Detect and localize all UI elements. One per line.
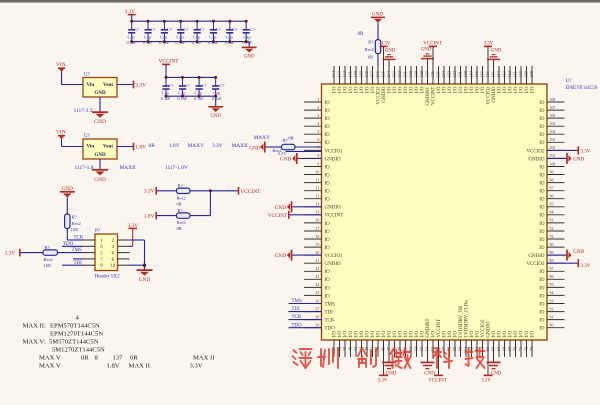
U3 pin 88 (right) wire [547, 262, 565, 264]
junction node cap C12 [214, 76, 217, 79]
svg-text:C?: C? [168, 83, 173, 88]
U3 pin 48 (bottom) wire [394, 340, 396, 357]
ground (bottom cluster1) [382, 361, 396, 363]
svg-text:I/O: I/O [503, 331, 508, 338]
svg-text:GNDIO: GNDIO [325, 262, 341, 267]
U3 pin 137 (top) wire [372, 66, 374, 84]
U3 pin 71 (bottom) wire [520, 340, 522, 357]
svg-text:I/O: I/O [360, 331, 365, 338]
U3 pin 51 (bottom) wire [410, 340, 412, 357]
U3 pin 29 (left) wire [304, 327, 322, 329]
U3 pin 104 (right) wire [547, 133, 565, 135]
svg-text:GNDIO: GNDIO [528, 254, 544, 259]
svg-text:I/O: I/O [470, 86, 475, 93]
U3 pin 136 (top) wire [377, 66, 379, 84]
svg-text:LVDSDRV_CLRn: LVDSDRV_CLRn [465, 300, 470, 338]
U3 pin 90 (right) wire [547, 246, 565, 248]
svg-text:IO: IO [325, 133, 331, 138]
wire VCCIO2 to 3.3V (right lower) [547, 262, 578, 264]
U3 pin 97 (right) wire [547, 190, 565, 192]
wire GND to R7 [377, 23, 379, 40]
svg-text:IO: IO [539, 278, 545, 283]
svg-text:I/O: I/O [366, 331, 371, 338]
U3 pin 26 (left) wire [304, 303, 322, 305]
U3 pin 21 (left) wire [304, 262, 322, 264]
U3 pin 131 (top) wire [405, 66, 407, 84]
U3 pin 101 (right) wire [547, 157, 565, 159]
svg-text:IO: IO [539, 222, 545, 227]
svg-text:I/O: I/O [481, 86, 486, 93]
U3 pin 87 (right) wire [547, 270, 565, 272]
wire GND rail vertical [144, 240, 146, 265]
svg-text:27: 27 [315, 307, 319, 311]
U3 pin 53 (bottom) wire [421, 340, 423, 357]
svg-text:IO: IO [539, 294, 545, 299]
svg-text:IO: IO [325, 278, 331, 283]
svg-text:130: 130 [408, 70, 413, 78]
cap bank2 bottom rail [166, 95, 216, 97]
svg-text:3.3V: 3.3V [144, 189, 155, 195]
svg-text:R?: R? [72, 215, 77, 220]
svg-text:108: 108 [529, 70, 534, 78]
U3 pin 73 (bottom) wire [531, 340, 533, 357]
svg-text:IO: IO [539, 101, 545, 106]
svg-text:TDI: TDI [325, 311, 334, 316]
ground (U1) [92, 111, 108, 113]
header pin 1 stub [83, 239, 95, 241]
svg-text:I/O: I/O [421, 331, 426, 338]
svg-text:I/O: I/O [437, 86, 442, 93]
U3 pin 68 (bottom) wire [504, 340, 506, 357]
capacitor C1 0.1uF [131, 21, 133, 29]
svg-text:84: 84 [550, 291, 554, 295]
svg-text:C?: C? [216, 27, 221, 32]
svg-text:GND: GND [275, 205, 286, 211]
svg-text:62: 62 [469, 347, 474, 352]
wire GND to chip row14 [292, 206, 321, 208]
U3 pin 115 (top) wire [493, 66, 495, 84]
wire bottom pin 47 to GND [388, 340, 390, 362]
power port 3.3V (right) [577, 146, 579, 154]
wire R3 to VCCINT port [190, 190, 238, 192]
U3 pin 47 (bottom) wire [388, 340, 390, 357]
U3 pin 95 (right) wire [547, 206, 565, 208]
svg-text:I/O: I/O [470, 331, 475, 338]
svg-text:VCCIO1: VCCIO1 [325, 149, 344, 154]
svg-text:I/O: I/O [503, 86, 508, 93]
svg-text:I/O: I/O [410, 331, 415, 338]
svg-text:MAX V: MAX V [39, 363, 61, 370]
U3 pin 45 (bottom) wire [377, 340, 379, 357]
U3 pin 72 (bottom) wire [526, 340, 528, 357]
U3 pin 127 (top) wire [427, 66, 429, 84]
U3 pin 13 (left) wire [304, 198, 322, 200]
svg-text:I/O: I/O [514, 86, 519, 93]
wire 3.3V row [286, 150, 322, 152]
svg-text:14: 14 [315, 203, 319, 207]
wire GNDIO to GND (right) [547, 157, 567, 159]
junction node cap C8 [245, 20, 248, 23]
svg-text:IO: IO [539, 182, 545, 187]
U3 pin 66 (bottom) wire [493, 340, 495, 357]
svg-text:2: 2 [317, 106, 319, 110]
svg-text:I/O: I/O [338, 86, 343, 93]
U3 pin 139 (top) wire [361, 66, 363, 84]
U3 pin 80 (right) wire [547, 327, 565, 329]
svg-text:IO: IO [325, 117, 331, 122]
wire VIN to U2 [61, 139, 63, 146]
svg-text:IO: IO [325, 238, 331, 243]
svg-text:85: 85 [550, 283, 554, 287]
svg-text:GNDIO: GNDIO [325, 206, 341, 211]
svg-text:I/O: I/O [371, 331, 376, 338]
svg-text:IO: IO [539, 214, 545, 219]
svg-text:I/O: I/O [333, 86, 338, 93]
sheet top border [0, 0, 600, 3]
power port 3.3V (bottom) [379, 374, 388, 376]
wire bottom pin 46 to 3.3V [383, 340, 385, 375]
svg-text:R?: R? [45, 245, 50, 250]
svg-text:I/O: I/O [355, 86, 360, 93]
wire header pin7 [73, 258, 83, 260]
U3 pin 85 (right) wire [547, 286, 565, 288]
U3 pin 18 (left) wire [304, 238, 322, 240]
svg-text:VCCIO2: VCCIO2 [377, 86, 382, 105]
svg-text:IO: IO [325, 101, 331, 106]
svg-text:IO: IO [325, 182, 331, 187]
junction node cap C4 [179, 20, 182, 23]
svg-text:IO: IO [325, 173, 331, 178]
U3 pin 38 (bottom) wire [339, 340, 341, 357]
svg-text:5: 5 [317, 130, 319, 134]
watermark char 3 (chuang) [358, 348, 376, 367]
svg-text:C?: C? [202, 83, 207, 88]
svg-text:I/O: I/O [377, 331, 382, 338]
U3 pin 84 (right) wire [547, 294, 565, 296]
svg-text:VCCIO2: VCCIO2 [526, 262, 545, 267]
U3 pin 142 (top) wire [344, 66, 346, 84]
U3 pin 42 (bottom) wire [361, 340, 363, 357]
U3 pin 93 (right) wire [547, 222, 565, 224]
U3 pin 55 (bottom) wire [432, 340, 434, 357]
svg-text:U?: U? [84, 73, 91, 78]
watermark char 5 (ke) [433, 348, 452, 368]
svg-text:69: 69 [507, 346, 512, 351]
svg-text:MAXV: MAXV [188, 143, 205, 149]
U3 pin 2 (left) wire [304, 109, 322, 111]
capacitor C7 0.1uF [229, 21, 231, 29]
svg-text:72: 72 [524, 347, 529, 352]
svg-text:I/O: I/O [531, 86, 536, 93]
U3 pin 141 (top) wire [350, 66, 352, 84]
U3 pin 19 (left) wire [304, 246, 322, 248]
svg-text:I/O: I/O [459, 86, 464, 93]
svg-text:Vout: Vout [103, 83, 113, 88]
wire TDI (chip left) [289, 311, 322, 313]
svg-text:IO: IO [539, 206, 545, 211]
svg-text:Cap: Cap [177, 34, 185, 39]
U3 pin 83 (right) wire [547, 303, 565, 305]
svg-text:Vin: Vin [87, 145, 95, 150]
U3 pin 4 (left) wire [304, 125, 322, 127]
U3 pin 54 (bottom) wire [427, 340, 429, 357]
svg-text:43: 43 [364, 346, 369, 351]
svg-text:Vin: Vin [87, 83, 95, 88]
svg-text:I/O: I/O [454, 86, 459, 93]
wire to GND (cap bank2) [215, 96, 217, 106]
U3 pin 106 (right) wire [547, 117, 565, 119]
wire TDO [62, 245, 83, 247]
power port 3.3V (U1 out) [133, 81, 135, 89]
svg-text:TCK: TCK [74, 236, 84, 241]
U3 pin 114 (top) wire [498, 66, 500, 84]
svg-text:MAXII: MAXII [232, 143, 248, 149]
U3 pin 108 (right) wire [547, 101, 565, 103]
U3 pin 11 (left) wire [304, 182, 322, 184]
U3 pin 126 (top) wire [432, 66, 434, 84]
svg-text:Cap: Cap [213, 91, 221, 96]
capacitor C2 0.1uF [147, 21, 149, 29]
svg-text:3.3V: 3.3V [580, 263, 590, 269]
svg-text:I/O: I/O [421, 86, 426, 93]
svg-text:88: 88 [550, 259, 554, 263]
svg-text:TDO: TDO [63, 242, 74, 247]
svg-text:0R: 0R [288, 135, 294, 140]
U3 pin 50 (bottom) wire [405, 340, 407, 357]
header pin 6 stub [118, 252, 130, 254]
svg-text:8: 8 [317, 154, 319, 158]
svg-text:99: 99 [550, 170, 554, 174]
U3 pin 43 (bottom) wire [366, 340, 368, 357]
U3 pin 105 (right) wire [547, 125, 565, 127]
svg-text:I/O: I/O [448, 86, 453, 93]
svg-text:132: 132 [397, 71, 402, 78]
wire TDO (chip left) [289, 327, 322, 329]
svg-text:53: 53 [419, 346, 424, 351]
svg-text:I/O: I/O [465, 86, 470, 93]
resistor R8 0R [282, 144, 296, 149]
svg-text:117: 117 [480, 70, 485, 77]
svg-text:GND: GND [386, 371, 397, 376]
U3 pin 70 (bottom) wire [515, 340, 517, 357]
power port VCCINT (bottom) [434, 374, 443, 376]
svg-text:Res2: Res2 [44, 257, 54, 262]
watermark char 4 (wei) [391, 348, 411, 368]
header pin 8 stub [118, 258, 130, 260]
wire bottom pin 66 to GND [493, 340, 495, 362]
svg-text:109: 109 [524, 70, 529, 78]
svg-text:GNDIO: GNDIO [492, 86, 497, 102]
svg-text:0R: 0R [368, 54, 373, 59]
cap bank2 top rail [166, 76, 216, 78]
svg-text:IO: IO [539, 270, 545, 275]
svg-text:106: 106 [550, 114, 556, 118]
svg-text:16: 16 [315, 219, 319, 223]
wire GND to R5 [66, 198, 68, 214]
U3 pin 39 (bottom) wire [344, 340, 346, 357]
svg-text:IO: IO [325, 246, 331, 251]
resistor R6 10K [43, 250, 58, 255]
U3 pin 121 (top) wire [460, 66, 462, 84]
svg-text:11: 11 [316, 178, 320, 182]
svg-text:1: 1 [317, 98, 319, 102]
svg-text:C?: C? [134, 27, 139, 32]
junction node cap C2 [147, 20, 150, 23]
svg-text:IO: IO [539, 165, 545, 170]
header pin 5 stub [83, 252, 95, 254]
svg-text:25: 25 [315, 291, 319, 295]
wire GND to chip row20 [292, 254, 321, 256]
svg-text:Cap: Cap [209, 34, 217, 39]
resistor R4 0R [177, 213, 191, 218]
svg-text:0.1uF: 0.1uF [242, 40, 252, 45]
svg-text:0R: 0R [177, 226, 183, 231]
svg-text:121: 121 [458, 71, 463, 78]
U3 pin 41 (bottom) wire [355, 340, 357, 357]
svg-text:I/O: I/O [371, 86, 376, 93]
wire to header GND [144, 265, 146, 270]
ground (bottom cluster3) [487, 361, 501, 363]
U3 pin 143 (top) wire [339, 66, 341, 84]
U3 pin 59 (bottom) wire [454, 340, 456, 357]
ground (left row 20) [291, 250, 293, 261]
svg-text:IO: IO [325, 230, 331, 235]
svg-text:95: 95 [550, 203, 554, 207]
svg-text:12: 12 [315, 187, 319, 191]
junction node cap C3 [163, 20, 166, 23]
svg-text:4: 4 [317, 122, 319, 126]
wire R5 to TCK row [66, 229, 68, 241]
svg-text:IO: IO [325, 294, 331, 299]
svg-text:105: 105 [550, 122, 556, 126]
svg-text:IO: IO [325, 109, 331, 114]
U3 pin 62 (bottom) wire [471, 340, 473, 357]
svg-text:115: 115 [491, 70, 496, 77]
U3 pin 99 (right) wire [547, 174, 565, 176]
wire TCK (chip left) [289, 319, 322, 321]
wire header pin2 to GND rail [130, 239, 145, 241]
svg-text:IO: IO [539, 125, 545, 130]
svg-text:EPM570T144C5N: EPM570T144C5N [566, 86, 598, 91]
svg-text:GND: GND [573, 249, 584, 255]
svg-text:10: 10 [315, 170, 319, 174]
svg-text:C?: C? [200, 27, 205, 32]
svg-text:GND: GND [280, 157, 291, 163]
wire GND row7 to chip [298, 158, 322, 160]
svg-text:136: 136 [375, 70, 380, 78]
junction node cap C5 [196, 20, 199, 23]
svg-text:22: 22 [315, 267, 319, 271]
U3 pin 110 (top) wire [520, 66, 522, 84]
ground (bottom cluster2) [421, 361, 435, 363]
power port 3.3V (right lower) [577, 259, 579, 267]
svg-text:MAX V:: MAX V: [23, 339, 46, 346]
U3 pin 98 (right) wire [547, 182, 565, 184]
svg-text:100: 100 [550, 162, 556, 166]
svg-text:IO: IO [539, 238, 545, 243]
svg-text:MAX II:: MAX II: [23, 323, 46, 330]
svg-text:60: 60 [458, 346, 463, 351]
U3 pin 82 (right) wire [547, 311, 565, 313]
svg-text:GND: GND [385, 48, 396, 53]
U3 pin 44 (bottom) wire [372, 340, 374, 357]
resistor R5 10K [65, 214, 70, 229]
svg-text:GND: GND [94, 153, 106, 158]
svg-text:TDO: TDO [292, 323, 303, 328]
svg-text:Header 5X2: Header 5X2 [95, 274, 121, 280]
power port 3.3V (header) [128, 227, 137, 229]
svg-text:70: 70 [513, 346, 518, 351]
svg-text:3.3V: 3.3V [135, 83, 146, 89]
svg-text:I/O: I/O [404, 86, 409, 93]
svg-text:124: 124 [441, 70, 446, 78]
svg-text:I/O: I/O [355, 331, 360, 338]
U3 pin 119 (top) wire [471, 66, 473, 84]
svg-text:59: 59 [452, 346, 457, 351]
svg-text:IO: IO [325, 141, 331, 146]
svg-text:IO: IO [325, 190, 331, 195]
voltage regulator U1 1117-3.3 [83, 78, 117, 98]
svg-text:I/O: I/O [344, 331, 349, 338]
svg-text:GND: GND [139, 277, 151, 283]
svg-text:39: 39 [342, 346, 347, 351]
svg-text:80: 80 [550, 324, 554, 328]
svg-text:MAX II: MAX II [129, 363, 150, 370]
svg-text:TDI: TDI [292, 307, 301, 312]
svg-text:73: 73 [529, 346, 534, 351]
capacitor C9 0.1uF [165, 77, 167, 85]
svg-text:3.3V: 3.3V [5, 251, 16, 257]
svg-text:GND: GND [94, 119, 106, 125]
U3 pin 107 (right) wire [547, 109, 565, 111]
U3 pin 5 (left) wire [304, 133, 322, 135]
svg-text:127: 127 [425, 70, 430, 78]
svg-text:134: 134 [386, 70, 391, 78]
svg-text:137: 137 [113, 355, 124, 362]
svg-text:0R: 0R [81, 355, 89, 362]
svg-text:101: 101 [550, 154, 556, 158]
svg-text:IO: IO [539, 141, 545, 146]
header pin 2 stub [118, 239, 130, 241]
svg-text:GND: GND [249, 145, 260, 151]
voltage regulator U2 1117-1.8 [83, 139, 117, 159]
svg-text:P?: P? [95, 229, 101, 234]
svg-text:81: 81 [550, 315, 554, 319]
svg-text:LVDSDRV_OE: LVDSDRV_OE [459, 306, 464, 338]
svg-text:1117-1.8: 1117-1.8 [75, 165, 94, 171]
wire R4 to junction [190, 215, 210, 217]
wire U1 Vout to 3.3V [117, 84, 134, 86]
wire GND to pin 134 [388, 59, 390, 66]
wire bottom pin 54 to GND [427, 340, 429, 362]
svg-text:I/O: I/O [509, 86, 514, 93]
U3 pin 100 (right) wire [547, 166, 565, 168]
svg-text:98: 98 [550, 178, 554, 182]
junction node cap C9 [165, 76, 168, 79]
svg-text:I/O: I/O [360, 86, 365, 93]
ground (right row 20) [566, 250, 568, 261]
svg-text:5M570ZT144C5N: 5M570ZT144C5N [49, 339, 99, 346]
U3 pin 49 (bottom) wire [399, 340, 401, 357]
wire R7 to pin 136 [377, 54, 379, 66]
svg-text:Res2: Res2 [177, 220, 187, 225]
svg-text:IO: IO [539, 198, 545, 203]
svg-text:28: 28 [315, 315, 319, 319]
U3 pin 14 (left) wire [304, 206, 322, 208]
wire U2 Vout to 1.8V [117, 146, 134, 148]
U3 pin 102 (right) wire [547, 149, 565, 151]
svg-text:I/O: I/O [382, 331, 387, 338]
